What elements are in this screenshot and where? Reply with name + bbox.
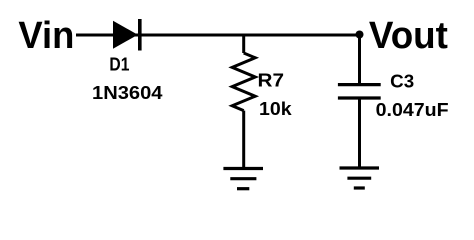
ground (resistor): [223, 169, 263, 189]
ground (capacitor): [340, 168, 380, 188]
svg-text:D1: D1: [109, 55, 129, 75]
resistor R7: [232, 53, 255, 111]
svg-text:Vin: Vin: [18, 15, 74, 57]
capacitor C3: [338, 85, 381, 98]
svg-text:R7: R7: [258, 71, 285, 91]
wire: capacitor bottom stub: [358, 99, 361, 168]
wire: resistor top stub: [242, 34, 245, 54]
node A: junction dot at Vout: [356, 31, 364, 39]
wire: capacitor top stub: [358, 35, 361, 84]
diode D1: [113, 19, 142, 51]
wire: main horizontal Vin to Vout node: [76, 34, 360, 37]
svg-text:C3: C3: [390, 71, 414, 91]
svg-text:0.047uF: 0.047uF: [376, 100, 449, 120]
svg-text:1N3604: 1N3604: [92, 83, 163, 103]
wire: resistor bottom stub: [242, 111, 245, 169]
svg-text:Vout: Vout: [369, 15, 448, 57]
svg-text:10k: 10k: [259, 99, 293, 119]
